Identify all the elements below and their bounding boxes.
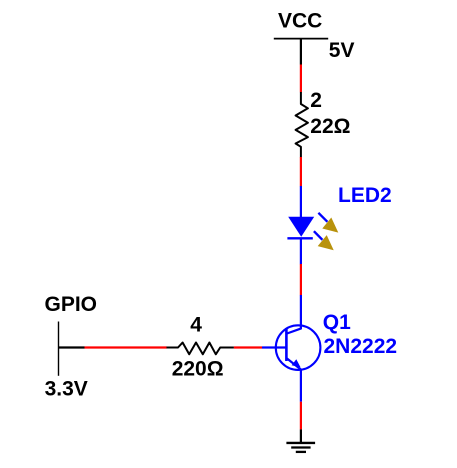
ground — [286, 429, 315, 452]
svg-text:4: 4 — [190, 314, 202, 337]
Q1 base pin — [262, 346, 286, 348]
svg-text:Q1: Q1 — [323, 311, 351, 334]
LED2 light emission arrow 1 — [318, 213, 338, 233]
resistor R2 — [296, 92, 308, 157]
wire R4 to Q1 base — [234, 346, 262, 348]
svg-text:3.3V: 3.3V — [45, 377, 88, 400]
LED LED2 (anode pin, triangle, cathode bar, cathode pin) — [287, 186, 314, 264]
port GPIO (vertical bar and pin stub) — [59, 322, 85, 376]
svg-text:22Ω: 22Ω — [310, 115, 350, 138]
resistor R4 — [167, 343, 234, 355]
wire Q1 emitter to ground — [300, 402, 302, 430]
svg-text:2: 2 — [310, 89, 322, 112]
wire VCC to resistor R2 — [300, 65, 302, 93]
svg-text:5V: 5V — [329, 39, 355, 62]
transistor Q1 (NPN symbol: collector pin, circle, base bar, collector/emitter diagonals, emitter arrow, emitter pin) — [276, 295, 321, 402]
svg-text:GPIO: GPIO — [45, 293, 98, 316]
wire R2 to LED2 anode — [300, 157, 302, 186]
svg-text:LED2: LED2 — [338, 184, 392, 207]
wire LED2 cathode to Q1 collector — [300, 264, 302, 295]
svg-text:VCC: VCC — [278, 9, 322, 32]
wire GPIO to resistor R4 — [85, 346, 167, 348]
power symbol VCC (rail bar and stub) — [274, 39, 328, 65]
svg-text:220Ω: 220Ω — [172, 358, 224, 381]
LED2 light emission arrow 2 — [314, 231, 334, 250]
svg-text:2N2222: 2N2222 — [324, 335, 398, 358]
